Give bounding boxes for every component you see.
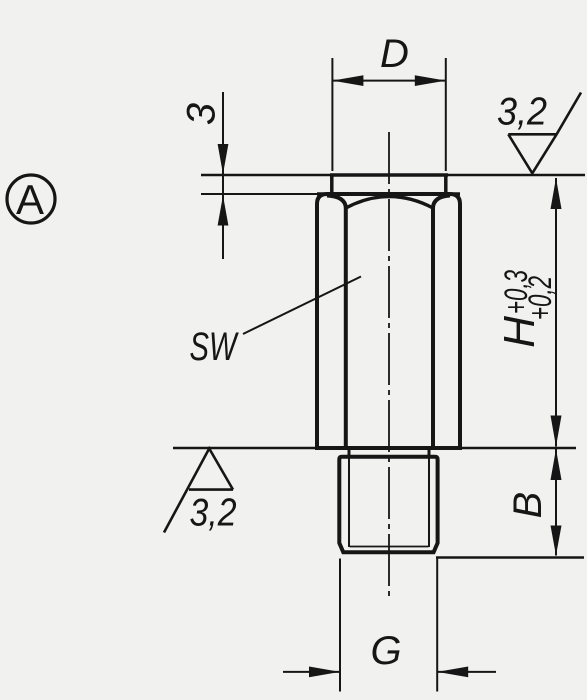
thread minor diameter lines bbox=[348, 457, 350, 547]
dimension D: right arrow bbox=[415, 75, 446, 86]
leader line SW bbox=[243, 277, 361, 335]
dimension B: bottom arrow (down) bbox=[551, 526, 562, 556]
dimension D: dimension line bbox=[332, 80, 445, 82]
dimension D: extension lines bbox=[331, 58, 333, 171]
svg-text:B: B bbox=[506, 492, 550, 519]
dimension B: top arrow (up) bbox=[551, 449, 562, 480]
dimension B: dimension line bbox=[555, 449, 557, 556]
centerline (vertical dash-dot axis) bbox=[388, 132, 390, 598]
stud neck lines bbox=[348, 448, 351, 457]
svg-text:+0,2: +0,2 bbox=[522, 276, 558, 320]
flange bottom line thin extension (left, for dim 3) bbox=[201, 193, 317, 195]
seat surface line (extended) bbox=[173, 447, 576, 450]
dimension D: left arrow bbox=[332, 75, 363, 86]
dimension 3: dimension line vertical bbox=[222, 92, 224, 259]
top surface line (extended) bbox=[201, 174, 585, 177]
dimension G: dimension line left part bbox=[283, 671, 340, 673]
hex top chamfer arc (middle face) bbox=[346, 197, 433, 209]
surface finish symbol top right (3,2) bbox=[508, 93, 581, 174]
svg-text:D: D bbox=[380, 32, 409, 76]
thread chamfer boundary line bbox=[350, 546, 429, 548]
threaded stud outline bbox=[339, 457, 437, 552]
hex left inner flat line bbox=[327, 196, 346, 447]
svg-text:3,2: 3,2 bbox=[497, 91, 547, 134]
svg-text:G: G bbox=[370, 629, 401, 673]
dimension 3: lower arrow (up) bbox=[218, 196, 229, 226]
svg-text:3: 3 bbox=[180, 103, 224, 125]
dimension G: right arrow (pointing left) bbox=[437, 667, 468, 678]
svg-text:SW: SW bbox=[190, 325, 239, 369]
view label A (circled) bbox=[7, 175, 55, 223]
dimension H: top arrow (up) bbox=[551, 178, 562, 209]
stud bottom reference line (for B) bbox=[436, 556, 584, 559]
hex bottom edge (thick part of seat line) bbox=[315, 446, 462, 450]
dimension H: dimension line bbox=[555, 178, 557, 447]
hex right inner flat line bbox=[433, 196, 450, 447]
flange top thick segment bbox=[330, 173, 448, 177]
dimension G: dimension line right part bbox=[437, 671, 496, 673]
dimension G: left arrow (pointing right) bbox=[309, 667, 340, 678]
flange (collar) outline bbox=[332, 175, 446, 192]
dimension 3: upper arrow (down) bbox=[218, 144, 229, 174]
dimension G: extension lines bbox=[339, 559, 341, 692]
hex body outline bbox=[317, 194, 460, 448]
dimension H: bottom arrow (down) bbox=[551, 416, 562, 447]
svg-text:A: A bbox=[16, 176, 44, 223]
surface finish symbol bottom left (3,2, flipped) bbox=[164, 449, 233, 533]
dimension H: label H +0,3 +0,2 (rotated) bbox=[495, 270, 558, 348]
svg-text:3,2: 3,2 bbox=[190, 492, 237, 535]
